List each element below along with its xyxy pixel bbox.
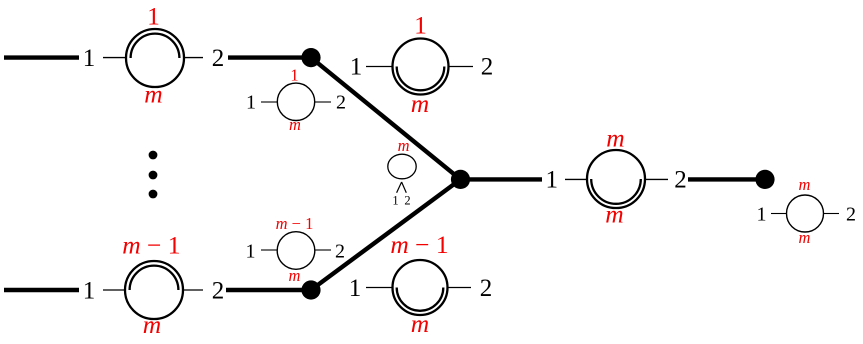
svg-text:m: m	[144, 80, 162, 109]
svg-text:1: 1	[83, 45, 96, 72]
svg-text:m: m	[289, 266, 301, 285]
svg-text:m: m	[143, 310, 161, 339]
svg-text:2: 2	[212, 278, 225, 305]
svg-text:2: 2	[336, 92, 346, 114]
svg-text:m: m	[799, 228, 811, 247]
svg-text:m: m	[411, 309, 429, 338]
svg-text:m − 1: m − 1	[122, 230, 180, 259]
svg-text:m − 1: m − 1	[390, 230, 448, 259]
svg-text:1: 1	[349, 275, 362, 302]
svg-text:2: 2	[335, 241, 345, 263]
svg-text:m: m	[606, 124, 624, 153]
svg-text:2: 2	[481, 54, 494, 81]
svg-text:1: 1	[83, 278, 96, 305]
svg-text:1: 1	[350, 54, 363, 81]
svg-text:1: 1	[246, 92, 256, 114]
svg-text:2: 2	[404, 194, 410, 208]
svg-text:m: m	[799, 175, 811, 194]
svg-text:2: 2	[846, 203, 856, 225]
svg-text:1: 1	[414, 11, 427, 40]
svg-text:m: m	[398, 136, 410, 155]
svg-text:m: m	[289, 115, 301, 134]
svg-text:1: 1	[392, 194, 398, 208]
svg-text:m: m	[411, 89, 429, 118]
svg-text:m: m	[605, 200, 623, 229]
svg-text:1: 1	[757, 203, 767, 225]
svg-text:m − 1: m − 1	[276, 214, 314, 233]
svg-text:2: 2	[212, 45, 225, 72]
svg-text:1: 1	[246, 241, 256, 263]
svg-text:1: 1	[290, 66, 298, 85]
svg-text:1: 1	[147, 1, 160, 30]
svg-text:2: 2	[480, 275, 493, 302]
svg-text:1: 1	[546, 167, 559, 194]
svg-text:2: 2	[674, 167, 687, 194]
